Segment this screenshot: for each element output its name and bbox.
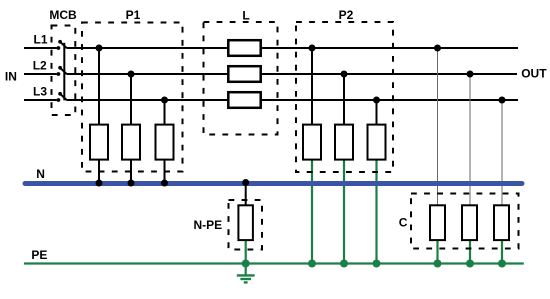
PE conductor (green) (24, 262, 524, 264)
svg-text:IN: IN (5, 70, 17, 84)
junction dot PE/C-2 (green) (466, 260, 474, 268)
junction dot L3/C-3 (499, 97, 506, 104)
surge arrester P2-3 body (368, 125, 386, 160)
wire C-3 vertical upper thin (L3 to capacitor) (501, 100, 503, 206)
breaker pole 3 of MCB (57, 92, 67, 102)
junction dot PE/N-PE (green) (242, 260, 250, 268)
junction dot L1/P1-1 (96, 45, 103, 52)
wire P2-2 vertical lower to PE (green) (343, 159, 345, 264)
svg-text:C: C (399, 216, 408, 230)
svg-text:L3: L3 (33, 85, 47, 99)
L enclosure dashed box (204, 22, 278, 135)
svg-text:N-PE: N-PE (194, 218, 223, 232)
surge arrester P1-1 body (90, 125, 108, 160)
svg-text:L: L (242, 8, 249, 22)
wire N-PE lower to PE (green) (245, 240, 247, 264)
wire L3 input segment (24, 99, 57, 101)
capacitor C-2 body (462, 205, 477, 240)
breaker pole 1 of MCB (57, 40, 67, 50)
wire P1-3 vertical (L3 to N) (164, 100, 166, 183)
junction dot PE/C-1 (green) (434, 260, 442, 268)
arrester N-PE body (238, 205, 253, 240)
junction dot PE/P2-1 (green) (308, 260, 316, 268)
P1 enclosure dashed box (82, 23, 183, 172)
wire L3 output segment (67, 99, 519, 101)
junction dot L2/P2-2 (341, 71, 348, 78)
wire P2-3 vertical upper (L3 to arrester) (376, 100, 378, 126)
junction dot PE/C-3 (green) (498, 260, 506, 268)
junction dot L1/C-1 (434, 45, 441, 52)
junction dot L3/P1-3 (161, 97, 168, 104)
junction dot N/P1-2 (128, 180, 135, 187)
svg-text:OUT: OUT (521, 67, 547, 81)
wire L2 output segment (67, 73, 518, 75)
svg-text:MCB: MCB (49, 8, 77, 22)
surge arrester P2-1 body (303, 125, 321, 160)
wire N-PE upper (N bus to arrester) (245, 183, 247, 207)
MCB enclosure dashed box (52, 26, 76, 116)
N-PE enclosure dashed box (229, 200, 263, 250)
junction dot PE/P2-2 (green) (340, 260, 348, 268)
wire P2-2 vertical upper (L2 to arrester) (343, 74, 345, 126)
MCB mechanical linkage bar (63, 43, 65, 101)
wire L1 output segment (67, 47, 519, 49)
wire C-2 vertical upper thin (L2 to capacitor) (469, 74, 471, 206)
junction dot L1/P2-1 (309, 45, 316, 52)
junction dot N/P1-1 (96, 180, 103, 187)
junction dot N/P1-3 (161, 180, 168, 187)
capacitor C-3 body (494, 205, 509, 240)
junction dot L2/P1-2 (128, 71, 135, 78)
capacitor C-1 body (430, 205, 445, 240)
svg-text:P1: P1 (126, 8, 141, 22)
svg-text:N: N (36, 167, 45, 181)
surge arrester P2-2 body (335, 125, 353, 160)
wire P2-3 vertical lower to PE (green) (375, 159, 377, 264)
wire P2-1 vertical lower to PE (green) (311, 159, 313, 264)
svg-text:L2: L2 (33, 59, 47, 73)
svg-text:P2: P2 (339, 8, 354, 22)
svg-text:PE: PE (31, 248, 47, 262)
junction dot L3/P2-3 (373, 97, 380, 104)
wire C-2 vertical lower to PE (green) (469, 240, 471, 264)
P2 enclosure dashed box (296, 22, 393, 172)
breaker pole 2 of MCB (57, 66, 67, 76)
junction dot L2/C-2 (467, 71, 474, 78)
N bus bar (blue) (25, 181, 522, 186)
inductor L1 body (228, 40, 260, 56)
inductor L2 body (228, 66, 260, 82)
junction dot PE/P2-3 (green) (373, 260, 381, 268)
C enclosure dashed box (411, 194, 519, 249)
wire L1 input segment (24, 47, 57, 49)
junction dot N/N-PE (242, 179, 249, 186)
wire C-1 vertical upper thin (L1 to capacitor) (437, 48, 439, 206)
surge arrester P1-3 body (156, 125, 174, 160)
wire C-1 vertical lower to PE (green) (436, 240, 438, 264)
ground symbol (earth electrode) (237, 264, 255, 283)
wire C-3 vertical lower to PE (green) (501, 240, 503, 264)
surge arrester P1-2 body (122, 125, 140, 160)
inductor L3 body (228, 92, 260, 108)
wire P1-2 vertical (L2 to N) (130, 74, 132, 183)
svg-text:L1: L1 (34, 33, 48, 47)
wire P1-1 vertical (L1 to N) (98, 48, 100, 183)
wire P2-1 vertical upper (L1 to arrester) (311, 48, 313, 126)
wire L2 input segment (24, 73, 57, 75)
